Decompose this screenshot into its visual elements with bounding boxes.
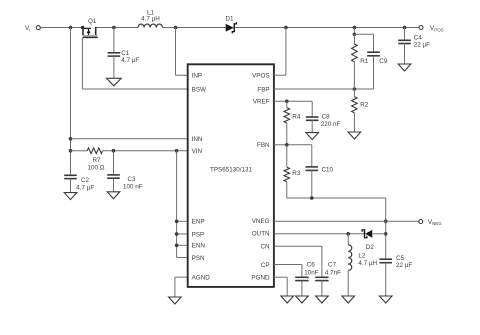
svg-text:FBP: FBP [257,86,269,93]
svg-text:C7: C7 [328,262,337,269]
svg-text:VIN: VIN [192,148,203,155]
svg-text:D1: D1 [225,15,234,22]
svg-text:4.7 µH: 4.7 µH [358,260,377,267]
svg-text:C6: C6 [307,262,316,269]
svg-text:C5: C5 [396,255,405,262]
svg-text:4.7nF: 4.7nF [325,270,341,277]
svg-text:PSP: PSP [192,231,205,238]
svg-text:22 µF: 22 µF [414,41,430,48]
svg-text:INN: INN [192,136,203,143]
svg-text:C1: C1 [121,50,130,57]
svg-text:FBN: FBN [257,142,270,149]
svg-text:C8: C8 [322,113,331,120]
svg-text:10nF: 10nF [304,270,319,277]
svg-text:C9: C9 [379,58,388,65]
svg-text:VPOS: VPOS [252,73,270,80]
svg-text:4.7 µH: 4.7 µH [141,16,160,23]
svg-text:PGND: PGND [251,275,270,282]
svg-text:R4: R4 [292,113,301,120]
svg-text:Q1: Q1 [88,18,97,25]
svg-text:220 nF: 220 nF [321,121,341,128]
svg-text:ENP: ENP [192,219,205,226]
svg-text:VREF: VREF [253,99,270,106]
svg-text:R3: R3 [292,170,301,177]
svg-text:R2: R2 [360,102,369,109]
svg-text:C10: C10 [322,166,334,173]
svg-text:100 Ω: 100 Ω [88,164,105,171]
svg-text:VNEG: VNEG [252,218,270,225]
svg-text:100 nF: 100 nF [123,184,143,191]
svg-text:4.7 µF: 4.7 µF [121,57,139,64]
svg-text:R1: R1 [360,58,369,65]
svg-text:L2: L2 [358,253,366,260]
svg-text:D2: D2 [366,244,375,251]
svg-text:OUTN: OUTN [252,231,270,238]
svg-text:C4: C4 [414,34,423,41]
svg-text:ENN: ENN [192,243,206,250]
svg-text:CP: CP [261,262,270,269]
svg-text:CN: CN [260,244,270,251]
svg-text:4.7 µF: 4.7 µF [76,185,94,192]
svg-text:AGND: AGND [192,275,211,282]
svg-text:TPS65130/131: TPS65130/131 [210,167,253,174]
svg-text:R7: R7 [92,157,101,164]
svg-text:C3: C3 [128,176,137,183]
svg-text:PSN: PSN [192,255,205,262]
svg-text:22 µF: 22 µF [396,262,412,269]
svg-text:BSW: BSW [192,86,206,93]
svg-text:INP: INP [192,73,203,80]
svg-text:C2: C2 [81,177,90,184]
